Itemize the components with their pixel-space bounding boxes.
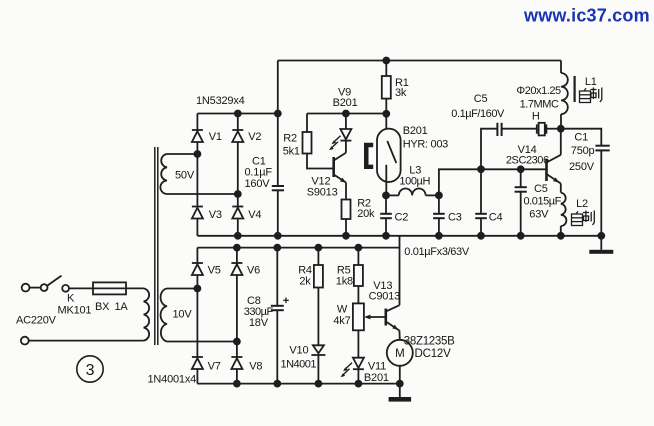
wire bridge top rail bbox=[197, 113, 277, 115]
svg-text:50V: 50V bbox=[175, 170, 195, 182]
diode V4 bbox=[232, 207, 243, 219]
svg-text:1N4001: 1N4001 bbox=[281, 359, 317, 371]
svg-text:4k7: 4k7 bbox=[333, 315, 350, 327]
wire R2 5k1 top bbox=[306, 114, 308, 133]
svg-text:5k1: 5k1 bbox=[283, 146, 300, 158]
node V4 bottom bbox=[235, 233, 241, 239]
svg-text:C2: C2 bbox=[395, 212, 409, 224]
capacitor C5 0.015uF 63V bbox=[515, 169, 527, 236]
svg-text:MK101: MK101 bbox=[58, 305, 92, 317]
resistor R2 20k bbox=[342, 200, 351, 220]
svg-text:Φ20x1.25: Φ20x1.25 bbox=[516, 85, 561, 97]
node L2 bottom bbox=[558, 233, 564, 239]
motor M 38Z1235B bbox=[387, 340, 413, 366]
svg-text:250V: 250V bbox=[569, 161, 595, 173]
node C8 bottom bbox=[274, 381, 280, 387]
svg-text:DC12V: DC12V bbox=[415, 348, 452, 360]
wire V5 to 10V tap bbox=[196, 275, 198, 357]
wire W to V11 bbox=[357, 330, 359, 357]
capacitor C1 750p 250V bbox=[595, 146, 609, 151]
transformer primary winding bbox=[144, 288, 150, 340]
svg-text:330µF: 330µF bbox=[244, 306, 274, 318]
resistor R5 1k8 bbox=[354, 248, 363, 304]
node C1 bottom bbox=[275, 233, 281, 239]
wire V6 to 10V bottom tap bbox=[236, 275, 238, 357]
water bracket symbol bbox=[364, 143, 373, 169]
wire C1 column upper bbox=[277, 61, 279, 187]
svg-text:K: K bbox=[67, 293, 75, 305]
node R5 top bbox=[355, 245, 361, 251]
svg-text:C5: C5 bbox=[474, 93, 488, 105]
node C1 top bbox=[275, 111, 281, 117]
node 10V top tap bbox=[194, 286, 200, 292]
wire V1 to 50V tap node bbox=[196, 142, 198, 207]
svg-text:L2: L2 bbox=[576, 198, 588, 210]
wire V8 to bottom bbox=[236, 369, 238, 384]
wire C1 750p to bottom rail bbox=[600, 150, 602, 235]
wire R2 20k to bottom rail bbox=[345, 219, 347, 236]
svg-text:B201: B201 bbox=[333, 97, 358, 109]
svg-text:V1: V1 bbox=[209, 131, 222, 143]
wire collector node to C1 750p bbox=[561, 129, 602, 146]
node C1 750p bottom bbox=[598, 233, 604, 239]
wire transducer to node A bbox=[385, 182, 387, 195]
svg-text:AC220V: AC220V bbox=[16, 315, 57, 327]
node V6 top bbox=[234, 245, 240, 251]
svg-text:750p: 750p bbox=[571, 145, 595, 157]
LED V11 light arrows bbox=[341, 363, 353, 377]
diode V2 bbox=[232, 114, 243, 143]
svg-text:C9013: C9013 bbox=[369, 291, 400, 303]
svg-text:C1: C1 bbox=[574, 132, 588, 144]
svg-text:1N4001x4: 1N4001x4 bbox=[148, 374, 197, 386]
LED V9 B201 bbox=[340, 114, 351, 153]
svg-text:www.ic37.com: www.ic37.com bbox=[523, 6, 650, 26]
wire node B up to base line bbox=[439, 169, 547, 195]
node V8 bottom bbox=[234, 381, 240, 387]
wire AC bottom terminal to transformer bbox=[21, 337, 144, 345]
wire R2 5k1 to V12 base bbox=[307, 154, 334, 169]
node V2 top bbox=[235, 111, 241, 117]
svg-text:V3: V3 bbox=[209, 209, 222, 221]
svg-text:3: 3 bbox=[86, 362, 95, 379]
inductor L1 bbox=[561, 61, 568, 129]
node 50V top tap bbox=[194, 151, 200, 157]
svg-text:0.1µF: 0.1µF bbox=[245, 167, 273, 179]
svg-text:18V: 18V bbox=[249, 317, 269, 329]
svg-text:3k: 3k bbox=[395, 87, 407, 99]
diode V6 bbox=[231, 248, 242, 275]
svg-text:B201: B201 bbox=[403, 125, 428, 137]
wire lower bridge top rail bbox=[197, 247, 399, 249]
node C2 bottom bbox=[383, 233, 389, 239]
L1 core line bbox=[573, 76, 575, 102]
wire mid rail bbox=[307, 113, 386, 115]
wire AC top terminal to switch bbox=[22, 284, 41, 292]
capacitor C5 0.1uF/160V bbox=[497, 123, 501, 136]
wire C1 to bottom rail bbox=[277, 190, 279, 236]
resistor R1 3k bbox=[382, 76, 391, 99]
wire 50V top tap bbox=[167, 153, 197, 155]
wire R1 bottom bbox=[385, 99, 387, 114]
node A transducer bottom bbox=[383, 192, 389, 198]
svg-text:V8: V8 bbox=[249, 361, 262, 373]
svg-text:V6: V6 bbox=[247, 265, 260, 277]
node V10 bottom bbox=[315, 381, 321, 387]
wire R1 top bbox=[385, 61, 387, 77]
crystal H 1.7MMC bbox=[537, 123, 547, 136]
node C8 top bbox=[274, 245, 280, 251]
svg-text:0.01µFx3/63V: 0.01µFx3/63V bbox=[404, 246, 470, 258]
svg-text:1.7MMC: 1.7MMC bbox=[520, 99, 559, 111]
svg-text:R2: R2 bbox=[283, 133, 297, 145]
transducer B201 HYR:003 bbox=[377, 129, 401, 182]
node R1 bottom bbox=[383, 111, 389, 117]
svg-text:V7: V7 bbox=[208, 361, 221, 373]
svg-text:HYR: 003: HYR: 003 bbox=[403, 139, 448, 151]
svg-text:L1: L1 bbox=[585, 76, 597, 88]
node V9 top bbox=[343, 111, 349, 117]
inductor L2 bbox=[561, 184, 567, 236]
wire 10V top tap bbox=[167, 288, 197, 290]
wire lower bottom rail bbox=[197, 383, 399, 385]
svg-text:10V: 10V bbox=[173, 309, 193, 321]
wire main bottom rail bbox=[197, 235, 601, 237]
svg-text:V2: V2 bbox=[248, 131, 261, 143]
svg-text:C3: C3 bbox=[448, 212, 462, 224]
fuse BX 1A bbox=[93, 282, 126, 294]
node C4 bottom bbox=[478, 233, 484, 239]
node B L3 right bbox=[436, 192, 442, 198]
node motor bottom bbox=[397, 381, 403, 387]
wire fuse to transformer primary bbox=[126, 287, 144, 289]
svg-text:V4: V4 bbox=[248, 209, 261, 221]
wire V2 to 50V bottom tap node bbox=[237, 142, 239, 207]
hand-drawn zizhi characters for L1 bbox=[580, 88, 602, 103]
hand-drawn zizhi characters for L2 bbox=[572, 211, 595, 226]
capacitor C3 bbox=[433, 195, 445, 235]
wire V4 to bottom rail bbox=[237, 219, 239, 236]
resistor R4 2k bbox=[314, 248, 323, 346]
LED V11 B201 bbox=[353, 358, 364, 384]
wire 50V bottom tap bbox=[167, 193, 238, 195]
ground right bbox=[589, 250, 613, 254]
wire ground stub right bbox=[600, 236, 602, 250]
wire V7 to bottom bbox=[196, 369, 198, 384]
transformer 10V secondary winding bbox=[161, 289, 167, 342]
node R4 top bbox=[315, 245, 321, 251]
svg-text:W: W bbox=[337, 304, 348, 316]
svg-text:100µH: 100µH bbox=[399, 176, 430, 188]
resistor R2 5k1 bbox=[303, 132, 312, 154]
svg-text:1N5329x4: 1N5329x4 bbox=[196, 95, 245, 107]
svg-text:H: H bbox=[532, 111, 540, 123]
svg-text:1A: 1A bbox=[115, 301, 129, 313]
capacitor C4 bbox=[475, 169, 487, 236]
svg-text:0.015µF: 0.015µF bbox=[524, 196, 562, 208]
diode V7 bbox=[192, 357, 203, 369]
node C3 bottom bbox=[436, 233, 442, 239]
transistor V14 2SC2306 bbox=[547, 129, 561, 184]
diode V5 bbox=[192, 248, 203, 275]
diode V10 1N4001 bbox=[311, 345, 325, 383]
node 50V bottom tap bbox=[235, 191, 241, 197]
svg-text:1k8: 1k8 bbox=[336, 275, 353, 287]
capacitor C2 bbox=[380, 195, 392, 235]
capacitor C1 0.1uF 160V bbox=[272, 186, 284, 190]
svg-text:B201: B201 bbox=[364, 372, 389, 384]
wire connector to V13 collector bbox=[399, 236, 401, 305]
node 10V bottom tap bbox=[234, 339, 240, 345]
node R1 top bbox=[383, 58, 389, 64]
inductor L3 100uH bbox=[386, 188, 439, 195]
svg-text:160V: 160V bbox=[245, 178, 271, 190]
wire ground stub motor bbox=[399, 384, 401, 397]
wire V13 emitter to motor bbox=[398, 330, 400, 340]
svg-text:20k: 20k bbox=[357, 208, 375, 220]
transistor V13 C9013 bbox=[386, 305, 400, 330]
wire crystal to collector node bbox=[546, 128, 560, 130]
svg-text:C5: C5 bbox=[534, 183, 548, 195]
wire V12 emitter to R2 20k bbox=[345, 183, 347, 200]
svg-text:V10: V10 bbox=[289, 344, 308, 356]
wire to transducer top bbox=[385, 114, 387, 129]
diode V8 bbox=[231, 357, 242, 369]
svg-text:63V: 63V bbox=[529, 209, 549, 221]
svg-text:2SC2306: 2SC2306 bbox=[506, 155, 549, 167]
capacitor C8 330uF 18V bbox=[271, 248, 289, 384]
LED V9 light arrows bbox=[329, 136, 341, 150]
node C4 top bbox=[478, 166, 484, 172]
diode V1 bbox=[192, 114, 203, 143]
wire C5a to crystal bbox=[502, 128, 537, 130]
svg-text:BX: BX bbox=[95, 301, 110, 313]
node collector V14 bbox=[558, 126, 564, 132]
transformer core bbox=[155, 147, 158, 345]
ground motor bbox=[389, 397, 412, 402]
potentiometer W 4k7 bbox=[353, 303, 386, 330]
wire V3 to bottom rail bbox=[196, 219, 198, 236]
diode V3 bbox=[192, 207, 203, 219]
svg-text:38Z1235B: 38Z1235B bbox=[404, 336, 455, 348]
transformer 50V secondary winding bbox=[160, 154, 167, 194]
wire top supply rail bbox=[278, 60, 561, 62]
node C5b top bbox=[518, 166, 524, 172]
svg-text:S9013: S9013 bbox=[307, 187, 338, 199]
wire motor to bottom rail bbox=[399, 366, 401, 384]
transistor V12 S9013 bbox=[334, 153, 347, 183]
wire C5a left leg bbox=[481, 129, 497, 170]
node R2 20k bottom bbox=[343, 233, 349, 239]
node V11 bottom bbox=[355, 381, 361, 387]
node C5b bottom bbox=[518, 233, 524, 239]
svg-text:C4: C4 bbox=[489, 212, 503, 224]
svg-text:M: M bbox=[395, 348, 404, 360]
svg-text:V11: V11 bbox=[368, 360, 386, 372]
svg-text:0.1µF/160V: 0.1µF/160V bbox=[451, 108, 505, 120]
switch K MK101 bbox=[41, 276, 69, 292]
circled number 3 bbox=[77, 356, 103, 382]
wire 10V bottom tap bbox=[167, 341, 237, 343]
wire switch to fuse bbox=[69, 287, 93, 289]
svg-text:V5: V5 bbox=[208, 265, 221, 277]
svg-text:2k: 2k bbox=[299, 275, 311, 287]
